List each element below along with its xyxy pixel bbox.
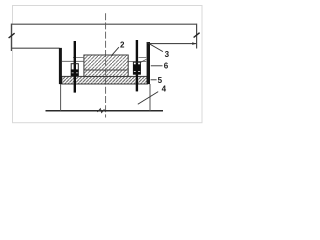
right shelf lines: [128, 61, 146, 63]
left ledger line: [11, 47, 59, 49]
label 4 leader: [138, 92, 158, 105]
slab 5: [62, 76, 148, 84]
right ledger line: [148, 43, 197, 45]
top line: [11, 23, 196, 25]
label 3 leader: [147, 42, 163, 51]
label 5 leader: [151, 79, 157, 81]
block 2: [84, 55, 128, 77]
right extension vertical: [196, 24, 198, 49]
left wall: [59, 48, 62, 84]
right anchor bolt: [133, 40, 141, 91]
right oblique tick: [194, 33, 200, 38]
right wall drop line: [149, 84, 151, 111]
label 2 leader: [111, 47, 119, 56]
left anchor bolt: [71, 41, 79, 93]
label 6 leader: [151, 65, 163, 67]
right wall: [147, 42, 150, 84]
svg-text:6: 6: [164, 62, 169, 71]
svg-text:2: 2: [120, 40, 125, 49]
left extension vertical: [10, 24, 12, 51]
left wall drop line: [60, 84, 62, 111]
bottom line: [46, 110, 164, 112]
svg-text:3: 3: [165, 50, 170, 59]
centerline: [105, 13, 107, 117]
left shelf lines: [62, 60, 84, 62]
break zigzag: [97, 109, 104, 113]
right arrowhead: [192, 42, 196, 45]
svg-text:4: 4: [162, 84, 167, 93]
left oblique tick: [9, 33, 15, 38]
